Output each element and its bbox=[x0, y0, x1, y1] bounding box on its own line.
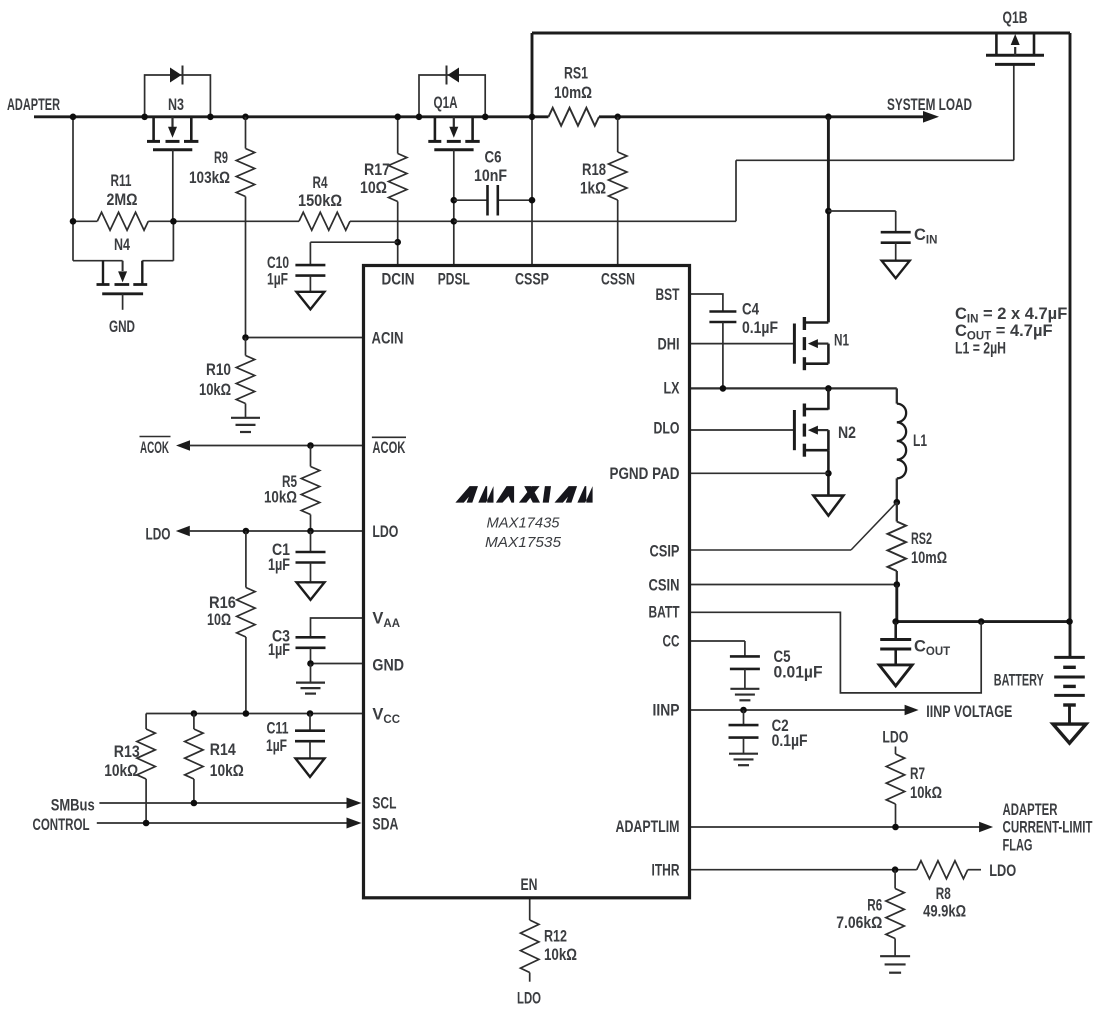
svg-text:FLAG: FLAG bbox=[1003, 837, 1033, 855]
svg-text:0.1µF: 0.1µF bbox=[742, 319, 778, 337]
svg-text:R8: R8 bbox=[936, 885, 951, 903]
svg-text:2MΩ: 2MΩ bbox=[107, 191, 138, 209]
svg-text:BATTERY: BATTERY bbox=[994, 672, 1044, 690]
svg-text:49.9kΩ: 49.9kΩ bbox=[923, 903, 966, 921]
svg-text:MAX17535: MAX17535 bbox=[485, 534, 562, 551]
svg-text:10kΩ: 10kΩ bbox=[104, 762, 138, 780]
svg-text:R7: R7 bbox=[910, 765, 925, 783]
svg-text:N1: N1 bbox=[834, 332, 849, 350]
svg-text:GND: GND bbox=[372, 656, 404, 674]
svg-text:R14: R14 bbox=[210, 741, 237, 759]
svg-text:IINP VOLTAGE: IINP VOLTAGE bbox=[926, 703, 1012, 721]
svg-text:N4: N4 bbox=[114, 236, 131, 254]
svg-text:Q1A: Q1A bbox=[434, 94, 458, 112]
svg-text:1µF: 1µF bbox=[267, 270, 288, 288]
svg-text:10mΩ: 10mΩ bbox=[911, 549, 947, 567]
svg-text:ADAPTER: ADAPTER bbox=[1003, 801, 1058, 819]
svg-text:PGND PAD: PGND PAD bbox=[610, 465, 680, 483]
svg-text:GND: GND bbox=[109, 318, 135, 336]
svg-text:CSIP: CSIP bbox=[650, 543, 680, 561]
svg-text:10kΩ: 10kΩ bbox=[199, 381, 231, 399]
svg-text:R9: R9 bbox=[214, 149, 228, 167]
svg-text:DCIN: DCIN bbox=[382, 271, 415, 289]
svg-text:CC: CC bbox=[663, 633, 680, 651]
svg-text:BST: BST bbox=[656, 286, 680, 304]
svg-text:C11: C11 bbox=[267, 720, 289, 738]
svg-text:ACOK: ACOK bbox=[140, 439, 169, 457]
svg-text:CSIN: CSIN bbox=[649, 577, 680, 595]
svg-text:10kΩ: 10kΩ bbox=[544, 946, 577, 964]
svg-text:IINP: IINP bbox=[653, 702, 680, 720]
svg-text:150kΩ: 150kΩ bbox=[298, 192, 342, 210]
svg-text:N2: N2 bbox=[838, 424, 856, 442]
svg-text:ACOK: ACOK bbox=[372, 439, 405, 457]
svg-text:LDO: LDO bbox=[517, 990, 541, 1008]
svg-text:CSSP: CSSP bbox=[515, 271, 549, 289]
svg-text:CONTROL: CONTROL bbox=[33, 816, 90, 834]
svg-text:0.1µF: 0.1µF bbox=[772, 732, 808, 750]
svg-text:R10: R10 bbox=[206, 361, 231, 379]
svg-text:1µF: 1µF bbox=[268, 641, 290, 659]
svg-text:C6: C6 bbox=[485, 149, 502, 167]
svg-text:R16: R16 bbox=[209, 594, 236, 612]
svg-text:R11: R11 bbox=[111, 172, 132, 190]
svg-text:SMBus: SMBus bbox=[51, 796, 95, 814]
svg-text:1µF: 1µF bbox=[268, 556, 290, 574]
svg-text:SYSTEM LOAD: SYSTEM LOAD bbox=[887, 96, 972, 114]
svg-text:L1 = 2µH: L1 = 2µH bbox=[955, 340, 1006, 358]
svg-text:C4: C4 bbox=[742, 301, 760, 319]
svg-text:CSSN: CSSN bbox=[601, 271, 635, 289]
svg-text:10mΩ: 10mΩ bbox=[554, 84, 592, 102]
svg-text:ACIN: ACIN bbox=[372, 330, 404, 348]
svg-text:0.01µF: 0.01µF bbox=[774, 663, 823, 681]
svg-text:PDSL: PDSL bbox=[438, 271, 470, 289]
svg-text:Q1B: Q1B bbox=[1003, 9, 1028, 27]
svg-text:10nF: 10nF bbox=[474, 167, 507, 185]
svg-text:L1: L1 bbox=[913, 432, 927, 450]
svg-text:R4: R4 bbox=[313, 174, 329, 192]
svg-text:RS1: RS1 bbox=[564, 65, 588, 83]
svg-text:BATT: BATT bbox=[649, 604, 680, 622]
svg-text:R6: R6 bbox=[867, 896, 882, 914]
svg-text:10kΩ: 10kΩ bbox=[910, 784, 942, 802]
svg-text:C10: C10 bbox=[267, 254, 289, 272]
svg-text:ITHR: ITHR bbox=[652, 862, 680, 880]
svg-text:LDO: LDO bbox=[372, 523, 398, 541]
svg-text:ADAPTLIM: ADAPTLIM bbox=[616, 818, 680, 836]
svg-text:DLO: DLO bbox=[654, 420, 680, 438]
svg-text:SCL: SCL bbox=[372, 795, 396, 813]
svg-text:10kΩ: 10kΩ bbox=[210, 762, 244, 780]
svg-text:SDA: SDA bbox=[372, 816, 398, 834]
svg-text:RS2: RS2 bbox=[911, 530, 932, 548]
svg-text:10Ω: 10Ω bbox=[360, 179, 387, 197]
svg-text:ADAPTER: ADAPTER bbox=[7, 96, 60, 114]
svg-text:N3: N3 bbox=[168, 96, 184, 114]
svg-text:LDO: LDO bbox=[989, 862, 1016, 880]
svg-text:LX: LX bbox=[664, 380, 680, 398]
svg-text:R18: R18 bbox=[582, 161, 606, 179]
svg-text:10kΩ: 10kΩ bbox=[264, 489, 297, 507]
svg-text:R12: R12 bbox=[544, 928, 567, 946]
svg-text:MAX17435: MAX17435 bbox=[487, 514, 561, 531]
svg-text:1µF: 1µF bbox=[266, 737, 287, 755]
svg-text:R17: R17 bbox=[364, 161, 390, 179]
svg-text:10Ω: 10Ω bbox=[207, 611, 231, 629]
svg-text:LDO: LDO bbox=[882, 728, 908, 746]
svg-text:103kΩ: 103kΩ bbox=[189, 169, 230, 187]
svg-text:R13: R13 bbox=[114, 743, 140, 761]
svg-text:1kΩ: 1kΩ bbox=[580, 180, 606, 198]
svg-text:EN: EN bbox=[521, 876, 538, 894]
svg-text:CURRENT-LIMIT: CURRENT-LIMIT bbox=[1003, 819, 1093, 837]
svg-text:DHI: DHI bbox=[658, 336, 680, 354]
svg-text:LDO: LDO bbox=[146, 526, 171, 544]
svg-text:7.06kΩ: 7.06kΩ bbox=[836, 914, 882, 932]
